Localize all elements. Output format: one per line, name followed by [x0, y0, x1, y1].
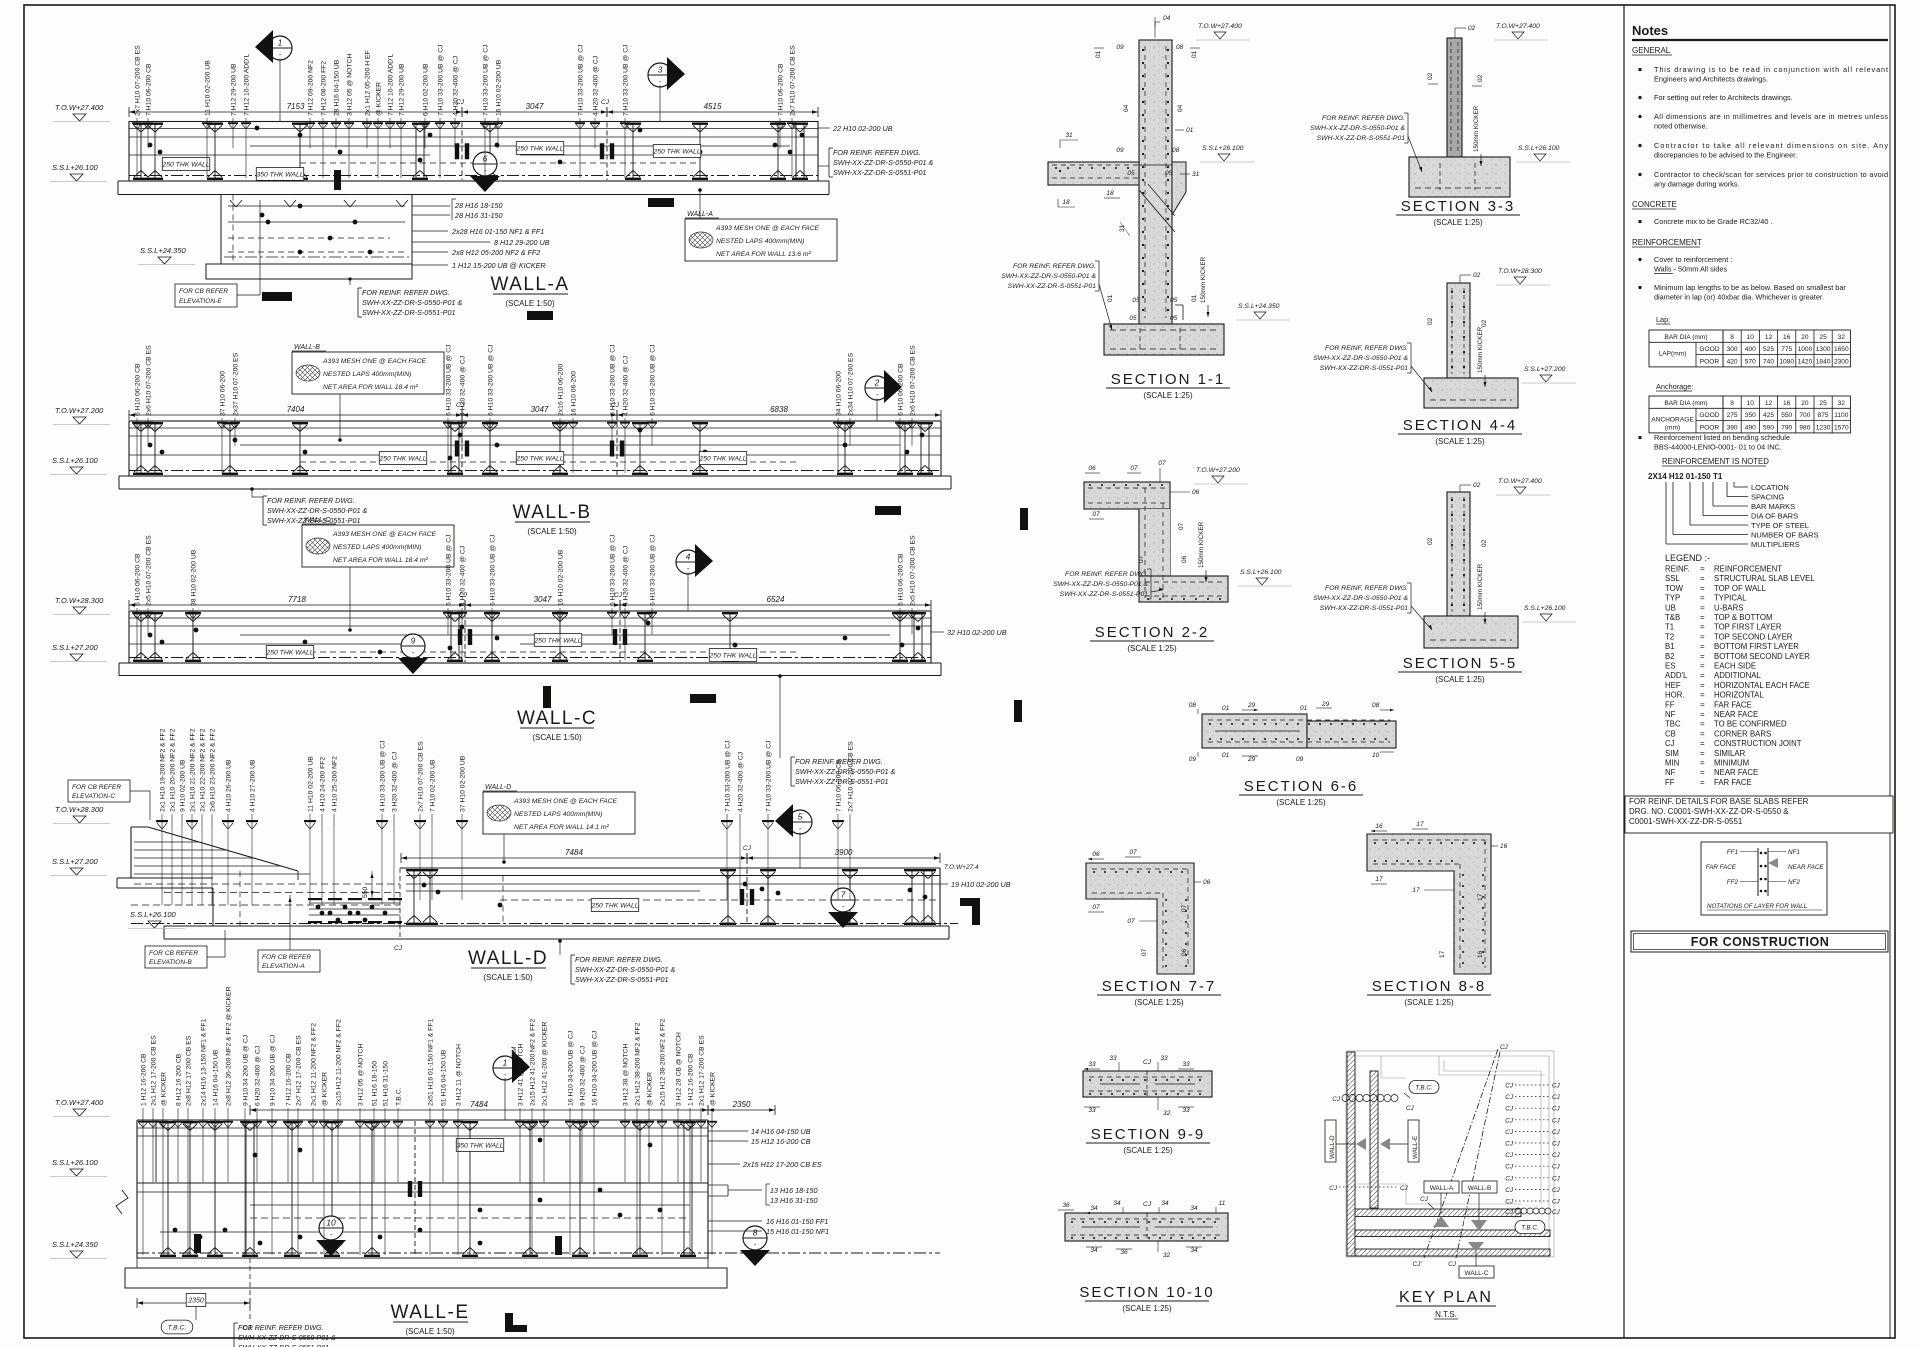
svg-text:NET AREA FOR WALL 13.6 m²: NET AREA FOR WALL 13.6 m² — [716, 251, 812, 258]
section marker 6 — [473, 152, 497, 176]
wall-A labels 28 H16 bracket — [412, 205, 450, 207]
svg-text:CJ: CJ — [1420, 1196, 1429, 1203]
svg-text:REINFORCEMENT: REINFORCEMENT — [1632, 238, 1702, 247]
svg-text:=: = — [1700, 700, 1705, 709]
svg-text:2x6 H10 07-200 CB ES: 2x6 H10 07-200 CB ES — [146, 345, 153, 416]
wall-A bottom cut mark — [527, 311, 553, 320]
svg-text:1 H12 15-200 UB @ KICKER: 1 H12 15-200 UB @ KICKER — [452, 261, 546, 270]
section marker 5 — [788, 810, 812, 834]
svg-text:16 H10 34-200 UB @ CJ: 16 H10 34-200 UB @ CJ — [568, 1031, 575, 1106]
svg-text:=: = — [1700, 691, 1705, 700]
svg-text:S.S.L+26.100: S.S.L+26.100 — [1240, 569, 1282, 576]
svg-text:LAP(mm): LAP(mm) — [1659, 351, 1687, 358]
svg-text:36: 36 — [1062, 1202, 1070, 1209]
svg-text:7 H12 29-200 UB: 7 H12 29-200 UB — [231, 63, 238, 116]
svg-text:3047: 3047 — [534, 595, 552, 604]
svg-text:05: 05 — [1127, 170, 1135, 177]
svg-text:(SCALE 1:25): (SCALE 1:25) — [1276, 798, 1326, 807]
svg-text:17: 17 — [1375, 876, 1383, 883]
svg-text:32: 32 — [1163, 1110, 1171, 1117]
wall-A label 2x8 H12 — [412, 251, 448, 253]
svg-text:(SCALE 1:25): (SCALE 1:25) — [1122, 1304, 1172, 1313]
svg-text:07: 07 — [1130, 465, 1138, 472]
wall-D band dots — [422, 883, 427, 888]
svg-text:7 H12 29-200 UB: 7 H12 29-200 UB — [399, 63, 406, 116]
svg-text:Walls - 50mm All sides: Walls - 50mm All sides — [1654, 265, 1727, 274]
section 9-9 CJ joint — [1146, 1071, 1148, 1097]
svg-text:T.O.W+27.400: T.O.W+27.400 — [1198, 23, 1242, 30]
svg-text:ELEVATION-B: ELEVATION-B — [149, 959, 192, 966]
svg-text:SWH-XX-ZZ-DR-S-0551-P01: SWH-XX-ZZ-DR-S-0551-P01 — [362, 308, 455, 317]
svg-text:WALL-E: WALL-E — [1412, 1136, 1419, 1159]
svg-text:6 H10 33-200 UB @ CJ: 6 H10 33-200 UB @ CJ — [488, 344, 495, 416]
svg-text:01: 01 — [1300, 705, 1308, 712]
svg-text:7 H12 16-200 CB: 7 H12 16-200 CB — [286, 1053, 293, 1106]
svg-text:2x37 H10 07-200 ES: 2x37 H10 07-200 ES — [233, 352, 240, 416]
svg-text:SWH-XX-ZZ-DR-S-0550-P01 &: SWH-XX-ZZ-DR-S-0550-P01 & — [833, 158, 933, 167]
svg-text:02: 02 — [1427, 317, 1434, 325]
svg-text:@ KICKER: @ KICKER — [647, 1072, 654, 1106]
svg-text:CJ: CJ — [1505, 1083, 1514, 1090]
svg-text:T.O.W+27.400: T.O.W+27.400 — [1496, 23, 1540, 30]
svg-text:6 H10 33-200 UB @ CJ: 6 H10 33-200 UB @ CJ — [610, 344, 617, 416]
svg-text:9 H10 02-200 UB: 9 H10 02-200 UB — [180, 759, 187, 812]
svg-text:SPACING: SPACING — [1751, 493, 1784, 502]
svg-text:7718: 7718 — [288, 595, 306, 604]
svg-text:2x1 H12 38-200 NF2 & FF2: 2x1 H12 38-200 NF2 & FF2 — [635, 1022, 642, 1106]
svg-text:6 H10 33-200 UB @ CJ: 6 H10 33-200 UB @ CJ — [650, 344, 657, 416]
svg-text:16: 16 — [1783, 400, 1791, 407]
svg-text:51 H16 18-150: 51 H16 18-150 — [372, 1061, 379, 1106]
wall-D band clusters — [413, 869, 415, 925]
svg-text:7 H10 33-200 UB @ CJ: 7 H10 33-200 UB @ CJ — [766, 740, 773, 812]
key plan wall-B label — [1462, 1181, 1497, 1193]
svg-text:250 THK WALL: 250 THK WALL — [515, 455, 563, 462]
wall-C cut mark 2 — [690, 694, 716, 703]
svg-text:Cover to reinforcement :: Cover to reinforcement : — [1654, 255, 1732, 264]
key plan wall-D hatched — [1347, 1052, 1355, 1256]
svg-text:05: 05 — [1165, 170, 1173, 177]
svg-text:TYPE OF STEEL: TYPE OF STEEL — [1751, 521, 1809, 530]
svg-text:Notes: Notes — [1632, 23, 1668, 38]
svg-text:WALL-D: WALL-D — [468, 948, 548, 969]
svg-text:WALL-A: WALL-A — [1430, 1185, 1454, 1192]
svg-text:150mm KICKER: 150mm KICKER — [1198, 521, 1205, 568]
svg-text:ELEVATION-A: ELEVATION-A — [262, 963, 305, 970]
svg-text:noted otherwise.: noted otherwise. — [1654, 122, 1708, 131]
notes bullet cover — [1638, 258, 1641, 261]
notes bullet 1 — [1638, 68, 1641, 71]
wall-D band internal bars — [406, 883, 940, 885]
section 1-1 footing — [1104, 324, 1224, 355]
svg-text:A393 MESH ONE @ EACH FACE: A393 MESH ONE @ EACH FACE — [513, 798, 618, 805]
wall-E footing slab — [125, 1268, 727, 1288]
wall-C SSL dash-dot line — [129, 657, 931, 659]
svg-text:=: = — [1700, 739, 1705, 748]
svg-text:3 H12 05 @ NOTCH: 3 H12 05 @ NOTCH — [347, 53, 354, 116]
wall-A section cut mark — [262, 292, 292, 301]
svg-text:4: 4 — [686, 552, 691, 562]
svg-text:5: 5 — [798, 812, 803, 822]
svg-text:11: 11 — [1219, 1200, 1226, 1207]
section 3-3 wall rebar — [1450, 42, 1452, 153]
svg-text:2x1 H10 21-200 NF2 & FF2: 2x1 H10 21-200 NF2 & FF2 — [190, 728, 197, 812]
wall-D dimension 3900 — [747, 857, 940, 859]
svg-text:875: 875 — [1818, 412, 1829, 419]
svg-text:7153: 7153 — [287, 102, 305, 111]
section marker 2 — [865, 376, 889, 400]
svg-text:NF2: NF2 — [1788, 879, 1800, 886]
svg-text:2x1 H12 17-200 CB ES: 2x1 H12 17-200 CB ES — [151, 1035, 158, 1106]
svg-text:33: 33 — [1088, 1061, 1096, 1068]
svg-text:WALL-D: WALL-D — [485, 784, 511, 791]
svg-text:=: = — [1700, 574, 1705, 583]
svg-text:34: 34 — [1190, 1247, 1198, 1254]
svg-text:WALL-C: WALL-C — [1465, 1270, 1489, 1277]
svg-text:CJ: CJ — [1400, 1185, 1409, 1192]
wall-A horizontal reinforcement bars — [129, 128, 818, 130]
svg-text:16 H16 01-150 FF1: 16 H16 01-150 FF1 — [766, 1217, 828, 1226]
wall-A vertical bar clusters — [140, 123, 142, 181]
svg-text:2x1 H12 05-200 H EF: 2x1 H12 05-200 H EF — [365, 50, 372, 116]
svg-text:775: 775 — [1781, 346, 1792, 353]
svg-text:37 H10 02-200 UB: 37 H10 02-200 UB — [460, 755, 467, 812]
svg-text:11 H10 02-200 UB: 11 H10 02-200 UB — [205, 60, 212, 116]
svg-text:2350: 2350 — [732, 1100, 751, 1109]
svg-text:1100: 1100 — [1834, 412, 1849, 419]
svg-text:4 H20 32-400 @ CJ: 4 H20 32-400 @ CJ — [460, 546, 467, 606]
wall-B cut mark 2 — [1020, 508, 1028, 530]
svg-text:2x7 H10 07-200 CB ES: 2x7 H10 07-200 CB ES — [418, 741, 425, 812]
svg-text:05: 05 — [1170, 315, 1178, 322]
svg-text:All dimensions are in millimet: All dimensions are in millimetres and le… — [1654, 112, 1888, 121]
svg-text:32: 32 — [1838, 400, 1846, 407]
svg-text:29: 29 — [1321, 701, 1330, 708]
svg-text:CJ: CJ — [1505, 1209, 1514, 1216]
svg-text:DRG. NO. C0001-SWH-XX-ZZ-DR-: DRG. NO. C0001-SWH-XX-ZZ-DR-S-0550 & — [1629, 807, 1789, 816]
section 4-4 footing — [1424, 378, 1518, 408]
section 1-1 kicker step — [1175, 304, 1183, 306]
svg-text:(SCALE 1:50): (SCALE 1:50) — [527, 527, 577, 536]
svg-text:2x7 H10 07-200 CB ES: 2x7 H10 07-200 CB ES — [135, 45, 142, 116]
svg-text:250 THK WALL: 250 THK WALL — [161, 161, 209, 168]
section 9-9 rebar — [1089, 1076, 1206, 1078]
svg-text:Reinforcement listed on bendin: Reinforcement listed on bending schedule — [1654, 433, 1790, 442]
section marker 1 — [268, 36, 292, 60]
svg-text:25: 25 — [1819, 334, 1827, 341]
svg-text:250 THK WALL: 250 THK WALL — [708, 652, 756, 659]
svg-text:350: 350 — [1745, 412, 1756, 419]
svg-text:SWH-XX-ZZ-DR-S-0551-P01: SWH-XX-ZZ-DR-S-0551-P01 — [1320, 365, 1409, 372]
svg-text:FOR REINF. REFER DWG.: FOR REINF. REFER DWG. — [267, 496, 355, 505]
svg-text:CJ: CJ — [1505, 1175, 1514, 1182]
svg-text:10: 10 — [1372, 752, 1380, 759]
svg-text:T.O.W+28.300: T.O.W+28.300 — [55, 596, 104, 605]
svg-text:CJ: CJ — [1332, 1096, 1341, 1103]
svg-text:T.O.W+27.400: T.O.W+27.400 — [55, 1098, 104, 1107]
svg-text:07: 07 — [1129, 849, 1137, 856]
wall-A wall band outline — [129, 122, 818, 182]
svg-text:CJ: CJ — [1505, 1106, 1514, 1113]
svg-text:04: 04 — [1163, 15, 1171, 22]
svg-text:any damage during works.: any damage during works. — [1654, 180, 1740, 189]
svg-text:02: 02 — [1481, 539, 1488, 547]
svg-text:ELEVATION-E: ELEVATION-E — [179, 298, 222, 305]
svg-text:=: = — [1700, 623, 1705, 632]
svg-text:T2: T2 — [1665, 632, 1674, 641]
svg-text:Contractor to take all relevan: Contractor to take all relevant dimensio… — [1654, 141, 1888, 150]
svg-text:CJ: CJ — [1552, 1117, 1561, 1124]
section 5-5 concrete wall — [1447, 492, 1470, 616]
key plan TBC cloud bottom — [1515, 1220, 1545, 1233]
notes bullet lap — [1638, 286, 1641, 289]
svg-text:GOOD: GOOD — [1699, 346, 1719, 353]
svg-text:1570: 1570 — [1834, 424, 1849, 431]
svg-text:28 H16 04-150 UB: 28 H16 04-150 UB — [334, 59, 341, 116]
svg-text:Concrete mix to be Grade RC32/: Concrete mix to be Grade RC32/40 . — [1654, 217, 1772, 226]
svg-text:KEY PLAN: KEY PLAN — [1399, 1289, 1493, 1306]
svg-text:2x8 H12 17 200 CB ES: 2x8 H12 17 200 CB ES — [186, 1035, 193, 1106]
svg-text:2x5 H10 07-200 CB ES: 2x5 H10 07-200 CB ES — [910, 535, 917, 606]
svg-text:=: = — [1700, 603, 1705, 612]
svg-text:CJ: CJ — [1552, 1083, 1561, 1090]
svg-text:SWH-XX-ZZ-DR-S-0550-P01 &: SWH-XX-ZZ-DR-S-0550-P01 & — [575, 965, 675, 974]
svg-text:29: 29 — [1247, 756, 1256, 763]
wall-B vertical bar clusters — [140, 422, 142, 475]
svg-text:FF2: FF2 — [1727, 879, 1739, 886]
key plan wall-C strip hatched — [1355, 1249, 1550, 1256]
key plan wall-E arrow — [1380, 1138, 1390, 1150]
svg-text:ANCHORAGE: ANCHORAGE — [1651, 417, 1694, 424]
key plan building outline — [1346, 1051, 1554, 1257]
svg-text:7 H10 06-200 CB: 7 H10 06-200 CB — [836, 759, 843, 812]
wall-E cut mark near title — [505, 1313, 513, 1329]
svg-text:08: 08 — [1176, 44, 1184, 51]
svg-text:HOR.: HOR. — [1665, 691, 1685, 700]
section 7-7 rebar — [1092, 868, 1188, 870]
wall-A label 8 H12 — [412, 241, 490, 243]
wall-C dimension 7718 — [129, 604, 465, 606]
svg-text:CJ: CJ — [1552, 1164, 1561, 1171]
svg-text:06: 06 — [1088, 465, 1096, 472]
svg-text:T.O.W+28.300: T.O.W+28.300 — [55, 805, 104, 814]
svg-text:SECTION 10-10: SECTION 10-10 — [1079, 1284, 1214, 1301]
svg-text:350 THK WALL: 350 THK WALL — [256, 171, 303, 178]
svg-text:08: 08 — [1372, 702, 1380, 709]
svg-text:=: = — [1700, 662, 1705, 671]
svg-text:2x1 H12 11-200 NF2 & FF2: 2x1 H12 11-200 NF2 & FF2 — [311, 1023, 318, 1106]
svg-text:SWH-XX-ZZ-DR-S-0550-P01 &: SWH-XX-ZZ-DR-S-0550-P01 & — [1313, 595, 1408, 602]
notes bullet concrete — [1638, 220, 1641, 223]
svg-text:SECTION 4-4: SECTION 4-4 — [1403, 417, 1518, 434]
svg-text:SWH-XX-ZZ-DR-S-0551-P01: SWH-XX-ZZ-DR-S-0551-P01 — [1317, 135, 1406, 142]
svg-text:3047: 3047 — [526, 102, 544, 111]
wall-E black bars — [194, 1234, 201, 1253]
svg-text:2x16 H10 06-200: 2x16 H10 06-200 — [558, 364, 565, 416]
svg-text:FF: FF — [1665, 778, 1675, 787]
section 8-8 rebar — [1373, 839, 1485, 841]
svg-text:05: 05 — [1129, 315, 1137, 322]
svg-text:10: 10 — [326, 1218, 336, 1228]
svg-text:=: = — [1700, 710, 1705, 719]
svg-text:33: 33 — [1182, 1107, 1190, 1114]
svg-text:WALL-C: WALL-C — [304, 517, 331, 524]
svg-text:FOR REINF. REFER DWG.: FOR REINF. REFER DWG. — [1065, 571, 1148, 578]
svg-text:LEGEND :-: LEGEND :- — [1665, 553, 1710, 563]
svg-text:WALL-B: WALL-B — [1468, 1185, 1492, 1192]
svg-text:UB: UB — [1665, 603, 1676, 612]
svg-text:NESTED LAPS 400mm(MIN): NESTED LAPS 400mm(MIN) — [716, 238, 804, 245]
svg-text:=: = — [1700, 584, 1705, 593]
svg-text:01: 01 — [1222, 705, 1230, 712]
svg-text:150mm KICKER: 150mm KICKER — [1477, 563, 1484, 610]
svg-text:250 THK WALL: 250 THK WALL — [265, 649, 313, 656]
svg-text:7484: 7484 — [565, 848, 583, 857]
svg-text:SIM: SIM — [1665, 749, 1679, 758]
section 6-6 concrete strip right — [1307, 721, 1396, 748]
svg-text:FOR REINF. REFER DWG.: FOR REINF. REFER DWG. — [575, 955, 663, 964]
svg-text:NUMBER OF BARS: NUMBER OF BARS — [1751, 531, 1819, 540]
notes bullet bending schedule — [1638, 436, 1641, 439]
svg-text:8: 8 — [1730, 334, 1734, 341]
svg-text:6838: 6838 — [770, 405, 788, 414]
svg-text:2x6 H10 23-200 NF2 & FF2: 2x6 H10 23-200 NF2 & FF2 — [210, 728, 217, 812]
svg-text:=: = — [1700, 729, 1705, 738]
svg-text:20: 20 — [1801, 400, 1809, 407]
wall-E bottom dimension 2350 — [137, 1302, 250, 1304]
section 7-7 concrete L-shape — [1086, 863, 1194, 974]
wall-E right notch — [708, 1184, 728, 1186]
svg-text:28 H16 18-150: 28 H16 18-150 — [454, 201, 503, 210]
wall-B wall band outline — [129, 421, 941, 476]
svg-text:FF: FF — [1665, 700, 1675, 709]
svg-text:7 H10 02-200 UB: 7 H10 02-200 UB — [430, 759, 437, 812]
svg-text:=: = — [1700, 720, 1705, 729]
svg-text:2x1 H12 17-200 CB ES: 2x1 H12 17-200 CB ES — [699, 1035, 706, 1106]
key plan wall-A arrow — [1433, 1216, 1449, 1227]
svg-text:4 H10 33-200 UB @ CJ: 4 H10 33-200 UB @ CJ — [380, 740, 387, 812]
section 1-1 wall rebar — [1144, 46, 1146, 318]
svg-text:7 H12 09-200 NF2: 7 H12 09-200 NF2 — [308, 60, 315, 116]
svg-text:SSL: SSL — [1665, 574, 1680, 583]
section 6-6 concrete strip left — [1202, 714, 1307, 748]
svg-text:S.S.L+26.100: S.S.L+26.100 — [52, 1158, 98, 1167]
svg-text:13 H16 31-150: 13 H16 31-150 — [770, 1196, 818, 1205]
svg-text:NEAR FACE: NEAR FACE — [1714, 710, 1758, 719]
svg-text:TOP & BOTTOM: TOP & BOTTOM — [1714, 613, 1773, 622]
svg-text:7 H10 33-200 UB @ CJ: 7 H10 33-200 UB @ CJ — [578, 44, 585, 116]
section 3-3 concrete wall dark — [1447, 38, 1462, 157]
svg-text:04: 04 — [1123, 104, 1130, 112]
svg-text:S.S.L+27.200: S.S.L+27.200 — [52, 643, 98, 652]
section marker 10 — [319, 1216, 343, 1240]
svg-text:FOR REINF. REFER DWG.: FOR REINF. REFER DWG. — [1325, 585, 1408, 592]
wall-A thickness label 250 far right — [653, 145, 700, 158]
svg-text:250 THK WALL: 250 THK WALL — [533, 637, 581, 644]
svg-text:20: 20 — [1801, 334, 1809, 341]
svg-text:FF1: FF1 — [1727, 849, 1738, 856]
svg-text:CJ: CJ — [1552, 1106, 1561, 1113]
wall-A dimension 7153 — [129, 111, 462, 113]
wall-D interior lines — [164, 892, 400, 894]
wall-A label 22 H10 — [818, 127, 830, 129]
svg-text:SWH-XX-ZZ-DR-S-0550-P01 &: SWH-XX-ZZ-DR-S-0550-P01 & — [238, 1335, 336, 1342]
wall-C cut mark — [543, 686, 551, 708]
svg-text:10: 10 — [1747, 334, 1755, 341]
wall-C base slab — [119, 662, 941, 664]
svg-text:4 H20 32-400 @ CJ: 4 H20 32-400 @ CJ — [460, 356, 467, 416]
table grid — [1649, 396, 1850, 433]
svg-text:4 H10 27-200 UB: 4 H10 27-200 UB — [250, 759, 257, 812]
svg-text:Anchorage:: Anchorage: — [1656, 382, 1693, 391]
wall-E right leader labels — [708, 1130, 748, 1132]
svg-text:1230: 1230 — [1816, 424, 1831, 431]
wall-B base slab — [119, 475, 951, 477]
svg-text:09: 09 — [1189, 756, 1197, 763]
svg-text:A393 MESH ONE @ EACH FACE: A393 MESH ONE @ EACH FACE — [715, 225, 820, 232]
wall-C cut mark 3 — [1014, 700, 1022, 722]
svg-text:FOR REINF. REFER DWG.: FOR REINF. REFER DWG. — [1322, 115, 1405, 122]
svg-text:NEAR FACE: NEAR FACE — [1788, 864, 1824, 871]
svg-text:Engineers and Architects drawi: Engineers and Architects drawings. — [1654, 75, 1768, 84]
wall-C dimension 6524 — [620, 604, 931, 606]
svg-text:B2: B2 — [1665, 652, 1675, 661]
svg-text:FAR FACE: FAR FACE — [1714, 778, 1752, 787]
svg-text:BOTTOM SECOND LAYER: BOTTOM SECOND LAYER — [1714, 652, 1810, 661]
wall-A label 1 H12 kicker — [412, 264, 448, 266]
svg-text:550: 550 — [362, 886, 369, 898]
svg-text:6 H10 33-200 UB @ CJ: 6 H10 33-200 UB @ CJ — [650, 534, 657, 606]
svg-text:2x51 H16 01-150 NF1 & FF1: 2x51 H16 01-150 NF1 & FF1 — [428, 1019, 435, 1106]
wall-A dimension 4515 — [607, 111, 818, 113]
svg-text:05: 05 — [1132, 297, 1140, 304]
svg-text:SECTION 9-9: SECTION 9-9 — [1091, 1126, 1206, 1143]
svg-text:CJ: CJ — [1552, 1152, 1561, 1159]
svg-text:=: = — [1700, 613, 1705, 622]
svg-text:MINIMUM: MINIMUM — [1714, 759, 1749, 768]
svg-text:SWH-XX-ZZ-DR-S-0550-P01 &: SWH-XX-ZZ-DR-S-0550-P01 & — [362, 298, 462, 307]
wall-D stack tick marks — [156, 820, 168, 822]
svg-text:S.S.L+27.200: S.S.L+27.200 — [1524, 366, 1566, 373]
wall-E dimension 2350 top — [708, 1109, 775, 1111]
svg-text:=: = — [1700, 652, 1705, 661]
wall-A right cut mark — [648, 198, 674, 207]
svg-text:7 H10 06-200 CB: 7 H10 06-200 CB — [778, 63, 785, 116]
svg-text:SECTION 6-6: SECTION 6-6 — [1244, 778, 1359, 795]
wall-E dimension 7484 — [250, 1109, 708, 1111]
section 1-1 left slab — [1048, 162, 1139, 185]
svg-text:CJ: CJ — [743, 845, 752, 852]
svg-text:525: 525 — [1763, 346, 1774, 353]
svg-text:B1: B1 — [1665, 642, 1675, 651]
svg-text:02: 02 — [1427, 72, 1434, 80]
svg-text:T.B.C.: T.B.C. — [1415, 1084, 1432, 1091]
wall-B SSL dash-dot line — [129, 470, 941, 472]
section 1-1 haunch diagonal — [1139, 190, 1175, 232]
svg-text:1420: 1420 — [1798, 358, 1813, 365]
svg-text:CJ: CJ — [1552, 1141, 1561, 1148]
svg-text:7404: 7404 — [287, 405, 305, 414]
key plan wall-A/B strip hatched — [1355, 1209, 1521, 1217]
svg-text:09: 09 — [1296, 756, 1304, 763]
svg-text:07: 07 — [1092, 511, 1100, 518]
svg-text:2x7 H12 17-200 CB ES: 2x7 H12 17-200 CB ES — [296, 1035, 303, 1106]
wall-B cut mark — [875, 506, 901, 515]
svg-text:GENERAL: GENERAL — [1632, 46, 1671, 55]
svg-text:250 THK WALL: 250 THK WALL — [590, 902, 638, 909]
svg-text:(SCALE 1:25): (SCALE 1:25) — [1435, 437, 1485, 446]
svg-text:S.S.L+24.350: S.S.L+24.350 — [1238, 303, 1280, 310]
